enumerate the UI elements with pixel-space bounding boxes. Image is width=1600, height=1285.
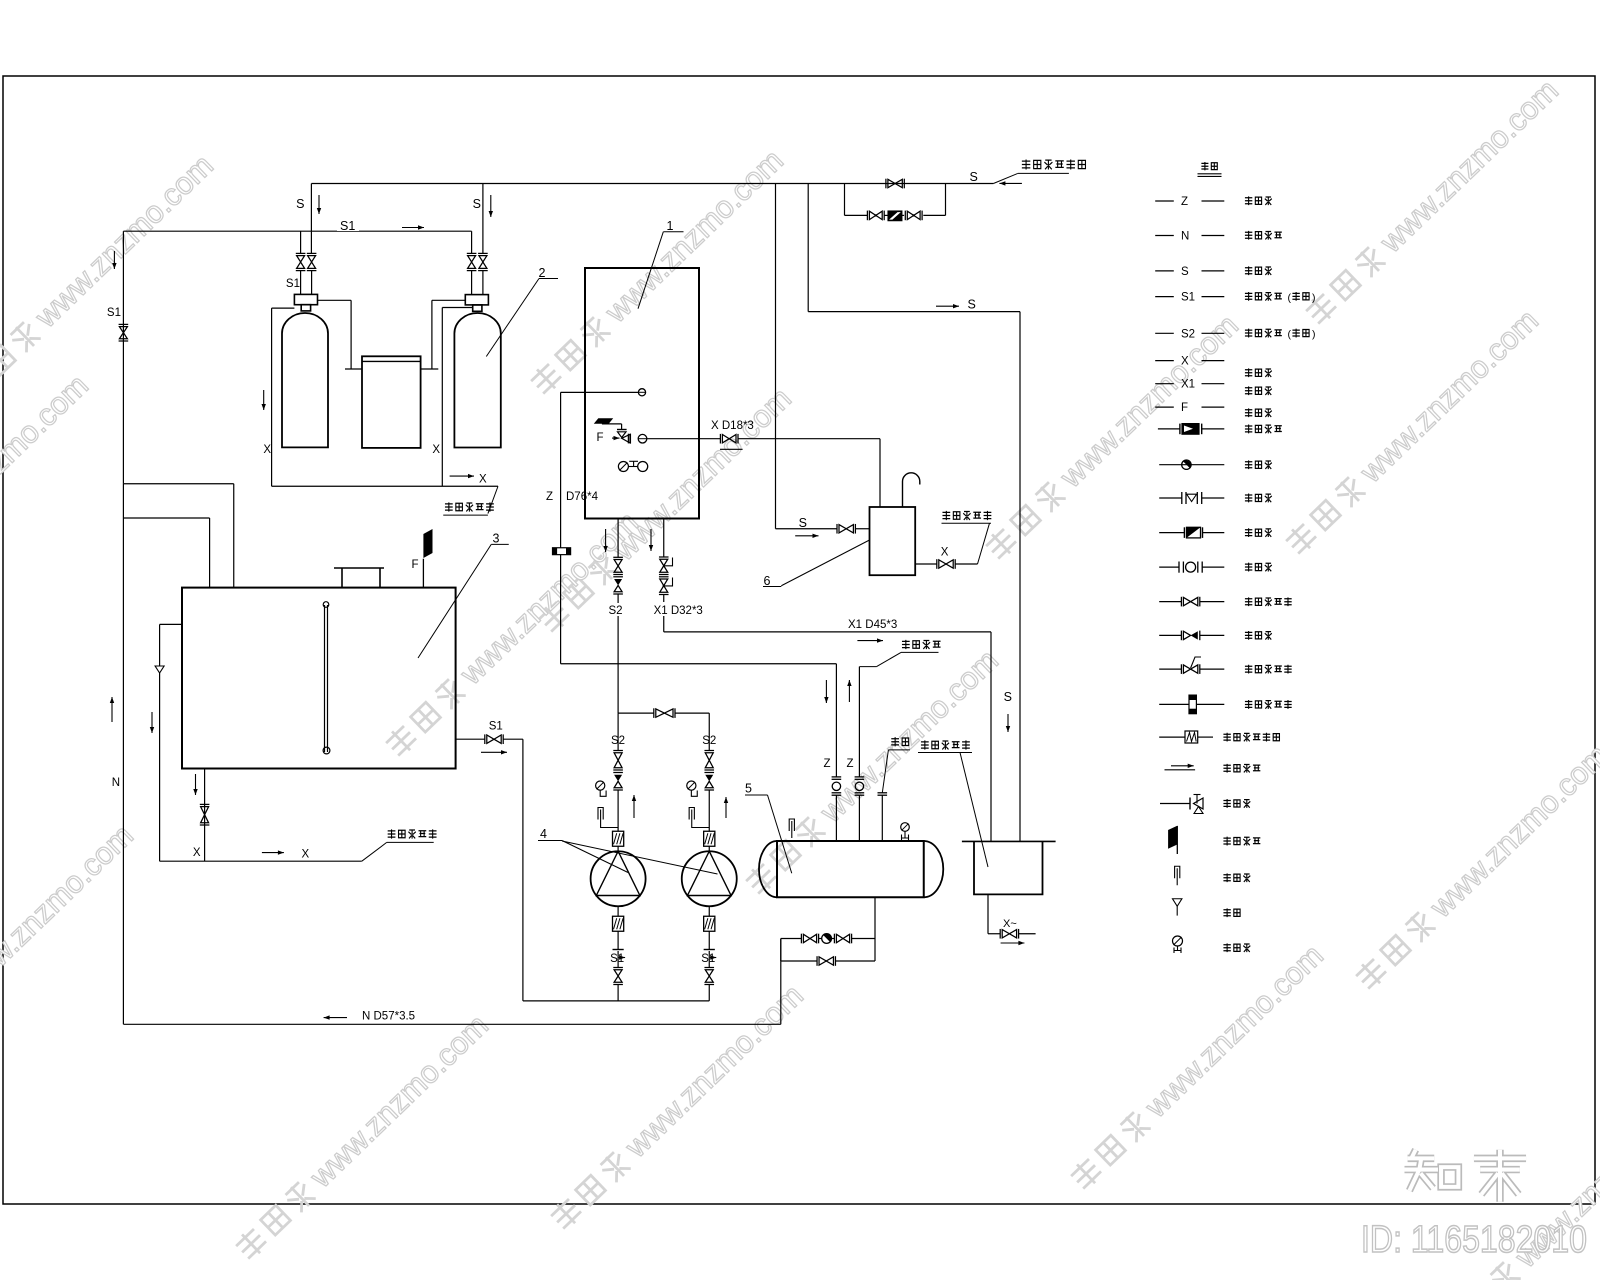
flex joint pump suction L	[613, 916, 624, 931]
legend row Z	[1155, 200, 1174, 202]
legend row steam meter	[1159, 703, 1189, 705]
svg-text:S: S	[968, 298, 976, 312]
valve softener right S	[478, 252, 488, 254]
vent atmosphere flag boiler	[594, 418, 613, 424]
pipe S2 below boiler	[617, 519, 619, 558]
flange suction L	[613, 949, 624, 951]
svg-text:5: 5	[745, 782, 752, 796]
pipe right fitting to brine	[432, 299, 465, 301]
znzmo logo	[1404, 1150, 1526, 1202]
legend row plug valve	[1159, 566, 1179, 568]
svg-text:D76*4: D76*4	[566, 491, 599, 503]
svg-text:S: S	[473, 197, 481, 211]
plug valve Z user L	[832, 776, 842, 778]
leader 接至用户	[859, 666, 876, 668]
svg-text:S1: S1	[610, 953, 624, 965]
tank3 overflow pipe	[160, 623, 182, 625]
pipe header5 drain bypass	[835, 960, 875, 962]
flex joint pump suction R	[704, 916, 715, 931]
vent F on tank 3	[422, 559, 424, 588]
svg-text:ID: 1165182010: ID: 1165182010	[1361, 1219, 1587, 1261]
flow arrow S left riser	[318, 195, 320, 214]
svg-text:3: 3	[493, 532, 500, 546]
svg-text:Z: Z	[823, 758, 830, 770]
svg-text:N: N	[1181, 231, 1189, 243]
pipe pump suction header	[523, 1000, 709, 1002]
legend row steam trap	[1159, 464, 1224, 466]
flow arrow drain header	[450, 475, 474, 477]
svg-text:Z: Z	[1181, 196, 1188, 208]
flow arrow S mid	[936, 305, 959, 307]
spare nozzle	[878, 792, 888, 794]
svg-text:X: X	[302, 849, 310, 861]
svg-text:Z: Z	[546, 491, 553, 503]
valve X D18*3	[719, 434, 721, 444]
pipe pit outlet	[987, 894, 989, 933]
svg-text:1: 1	[667, 219, 674, 233]
pipe bypass left drop	[844, 184, 846, 216]
label 备用	[891, 737, 899, 746]
svg-text:(: (	[1288, 292, 1292, 304]
flow arrow S right drop	[1007, 714, 1009, 732]
flow arrow left drain	[263, 390, 265, 410]
blowdown pit ground	[962, 840, 1056, 842]
flex joint pump inlet top L	[613, 831, 624, 846]
brine shoulder right	[421, 368, 439, 370]
valve bypass right	[904, 211, 906, 221]
flow arrow into S header	[999, 182, 1022, 184]
pressure gauge pump R	[687, 781, 696, 790]
svg-text:X1 D32*3: X1 D32*3	[654, 605, 703, 617]
svg-text:X: X	[432, 444, 440, 456]
pump circle L	[591, 851, 646, 906]
flow arrow X1 below boiler	[650, 529, 652, 551]
label X1 D32*3	[652, 602, 700, 616]
svg-text:S2: S2	[1181, 328, 1195, 340]
valve pit outlet	[999, 929, 1001, 939]
legend row S	[1155, 270, 1174, 272]
legend row S2	[1155, 332, 1174, 334]
flow arrow pump disch R	[725, 797, 727, 818]
label S1 header	[337, 218, 359, 231]
svg-text:N: N	[112, 777, 120, 789]
steam trap ball	[822, 934, 832, 944]
valve S2 stop	[613, 556, 623, 558]
thermometer header5	[789, 819, 794, 831]
pipe N riser	[122, 484, 124, 1025]
steam header 5 body	[777, 841, 924, 897]
svg-text:S: S	[799, 516, 807, 530]
legend row S1	[1155, 296, 1174, 298]
pipe header5 drain	[874, 897, 876, 961]
valve pump suction L	[613, 967, 623, 969]
legend row N	[1155, 235, 1174, 237]
flex joint pump inlet top R	[704, 831, 715, 846]
svg-text:F: F	[596, 432, 603, 444]
pump circle R	[682, 851, 737, 906]
pipe S supply header	[311, 183, 993, 185]
flow arrow S2 below boiler	[605, 529, 607, 552]
boiler feed nozzle	[638, 389, 645, 396]
legend row flex joint	[1159, 736, 1185, 738]
pipe S1 to tank3	[123, 483, 233, 485]
flow arrow S trap	[795, 535, 818, 537]
valve softener right S1	[467, 252, 477, 254]
boiler gauge set	[618, 462, 628, 472]
valve softener left S1	[296, 252, 306, 254]
valve X1 quick blowdown 2	[659, 576, 669, 578]
legend row F	[1155, 406, 1174, 408]
pipe S to trap box	[775, 184, 777, 529]
svg-text:X1: X1	[1181, 379, 1195, 391]
valve on S header	[885, 179, 887, 189]
trap box 6	[870, 507, 916, 575]
svg-text:S2: S2	[702, 735, 716, 747]
svg-text:S: S	[296, 197, 304, 211]
svg-text:X: X	[479, 474, 487, 486]
pipe steam user riser	[858, 667, 860, 777]
svg-text:): )	[1312, 329, 1316, 341]
pipe bypass branch	[845, 214, 868, 216]
legend row X	[1155, 360, 1174, 362]
valve S1 outlet	[484, 734, 486, 744]
svg-text:X: X	[941, 547, 949, 559]
boiler blowoff nozzle	[638, 434, 647, 443]
valve X1 quick blowdown 1	[659, 556, 669, 558]
valve pump discharge check L	[613, 772, 623, 774]
valve bypass left	[866, 211, 868, 221]
flow arrow S1 header	[402, 227, 424, 229]
pipe pump branch 709.25 R	[708, 713, 710, 750]
svg-text:S1: S1	[701, 953, 715, 965]
pipe Z main drop	[560, 392, 562, 547]
svg-text:(: (	[1288, 329, 1292, 341]
pressure reducing valve box	[888, 211, 902, 221]
softener vessel right body	[454, 334, 500, 448]
legend row quick blowdown	[1159, 668, 1181, 670]
watermark pattern	[0, 148, 220, 406]
pipe left softener neck pipes	[300, 271, 302, 295]
pipe S riser left softener	[310, 184, 312, 254]
pipe left fitting to brine	[318, 299, 352, 301]
pipe bypass right drop	[945, 184, 947, 216]
valve S2 check	[613, 576, 623, 578]
pipe right softener neck pipes	[471, 271, 473, 295]
label 接至集水坑 bottom	[388, 829, 396, 838]
svg-text:X D18*3: X D18*3	[711, 420, 754, 432]
legend row X1	[1155, 383, 1174, 385]
valve S trap inlet	[836, 524, 838, 534]
valve S2 header	[653, 708, 655, 718]
svg-text:S2: S2	[611, 735, 625, 747]
svg-text:X: X	[193, 847, 201, 859]
svg-text:2: 2	[539, 266, 546, 280]
pipe N to tank3	[123, 517, 209, 519]
valve S1 riser	[119, 323, 129, 325]
pipe pump branch 618.1 L	[617, 713, 619, 750]
svg-text:6: 6	[764, 574, 771, 588]
brine shoulder left	[345, 368, 362, 370]
pipe right softener drain	[442, 307, 472, 309]
pipe drain header to pit	[160, 860, 362, 862]
legend row safety valve	[1160, 803, 1190, 805]
svg-text:F: F	[411, 559, 418, 571]
flow arrow S1 outlet	[481, 751, 507, 753]
pipe S1 down to suction header	[522, 739, 524, 1001]
safety valve boiler	[617, 429, 627, 431]
svg-text:S2: S2	[609, 605, 623, 617]
pipe left softener drain	[272, 307, 295, 309]
valve tank3 drain	[200, 803, 210, 805]
svg-text:4: 4	[540, 827, 547, 841]
pipe S2 discharge header	[618, 712, 654, 714]
pipe S right drop	[807, 184, 809, 312]
flow arrow S right riser	[490, 195, 492, 217]
thermometer pump R	[689, 808, 694, 820]
trap hook vent	[903, 473, 920, 507]
svg-text:X: X	[1181, 356, 1189, 368]
plug valve Z user R	[855, 776, 865, 778]
svg-text:X1 D45*3: X1 D45*3	[848, 619, 897, 631]
svg-text:S1: S1	[107, 307, 121, 319]
flow arrow N riser	[111, 697, 113, 722]
pipe S1 drop to right valve	[471, 231, 473, 253]
flow arrow user riser L	[825, 680, 827, 703]
pipe S riser right softener	[482, 184, 484, 254]
pipe S1 header	[123, 230, 471, 232]
legend row check valve	[1159, 634, 1181, 636]
legend row stop valve	[1159, 601, 1181, 603]
flow arrow overflow	[151, 712, 153, 733]
svg-text:F: F	[1181, 402, 1188, 414]
pipe Z feed to boiler	[561, 391, 639, 393]
level gauge tank3	[324, 605, 326, 752]
label source 接自给水总管	[1022, 159, 1030, 169]
legend title 图例	[1201, 162, 1208, 170]
svg-text:): )	[1312, 292, 1316, 304]
label S2 below boiler	[607, 603, 624, 616]
pipe bypass mid	[884, 214, 888, 216]
legend row flow dir	[1165, 769, 1196, 771]
softener vessel left dome	[282, 313, 328, 334]
legend row water meter	[1159, 532, 1184, 534]
svg-text:S1: S1	[489, 721, 503, 733]
blowdown pit box	[974, 841, 1043, 894]
label 接至集水坑 trap	[942, 511, 950, 520]
svg-text:S1: S1	[286, 278, 300, 290]
pipe S1 riser left	[122, 231, 124, 484]
svg-text:S1: S1	[1181, 292, 1195, 304]
softener vessel right dome	[454, 313, 500, 334]
flange suction R	[704, 949, 715, 951]
valve pump discharge stop R	[704, 750, 714, 752]
svg-text:X: X	[263, 444, 271, 456]
pipe X1 below boiler	[663, 519, 665, 558]
legend row funnel	[1173, 899, 1182, 907]
flow arrow X1 header	[857, 640, 883, 642]
neck right softener	[473, 305, 482, 311]
pipe S1 tank3 outlet	[456, 738, 485, 740]
svg-text:Z: Z	[846, 758, 853, 770]
svg-text:S: S	[1181, 266, 1189, 278]
tank3 drain	[204, 769, 206, 862]
flow arrow N header	[324, 1017, 347, 1019]
valve drain bypass	[816, 956, 818, 966]
steam flow meter on Z	[553, 548, 571, 555]
pressure gauge header5	[901, 823, 910, 832]
funnel overflow	[155, 666, 164, 673]
svg-text:N D57*3.5: N D57*3.5	[362, 1011, 415, 1023]
softener vessel left body	[282, 334, 328, 448]
svg-text:S: S	[970, 170, 978, 184]
flow arrow S1 riser	[113, 251, 115, 269]
leader 接至集水坑 softener drain	[488, 486, 498, 513]
pipe X1 drop to pit	[990, 632, 992, 842]
flow arrow pump disch L	[633, 795, 635, 818]
boiler body	[585, 268, 699, 519]
svg-text:S1: S1	[340, 219, 355, 233]
valve trap branch left	[800, 934, 802, 944]
valve softener left S	[307, 252, 317, 254]
legend row filter	[1159, 497, 1182, 499]
valve pump suction R	[704, 967, 714, 969]
fitting left softener	[294, 294, 317, 304]
pressure gauge pump L	[596, 781, 605, 790]
legend row PRV	[1158, 428, 1180, 430]
pipe X D18*3	[647, 438, 721, 440]
legend row pressure gauge	[1173, 936, 1183, 946]
label 排污降温池	[921, 740, 929, 749]
legend row vent atmosphere	[1168, 826, 1177, 849]
thermometer pump L	[598, 808, 603, 820]
svg-text:S: S	[1004, 690, 1012, 704]
tank 3 manhole	[334, 567, 384, 569]
brine tank	[362, 356, 421, 448]
pipe Z main to steam header	[561, 663, 837, 665]
valve trap branch right	[833, 934, 835, 944]
flow arrow user riser R	[848, 680, 850, 702]
valve trap outlet	[936, 559, 938, 569]
svg-text:X~: X~	[1003, 918, 1017, 930]
fitting right softener	[465, 295, 488, 305]
neck left softener	[301, 305, 310, 311]
pipe trap outlet	[915, 563, 937, 565]
valve pump discharge stop L	[613, 750, 623, 752]
pipe S1 drop to left valve	[300, 231, 302, 253]
flow arrow tank3 drain	[195, 774, 197, 795]
legend row thermometer	[1175, 866, 1180, 878]
valve pump discharge check R	[704, 772, 714, 774]
flow arrow bottom header	[262, 852, 284, 854]
pipe softener drain header	[272, 485, 498, 487]
tank 3 body	[182, 588, 456, 769]
